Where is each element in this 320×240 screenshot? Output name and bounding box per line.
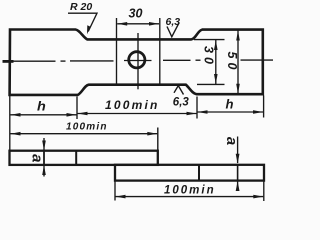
dimension 50 right vertical [225, 31, 240, 94]
svg-text:h: h [37, 99, 46, 114]
vertical center line of hole [137, 33, 139, 89]
weld zone line left [116, 18, 118, 85]
dimension a left [28, 138, 45, 177]
svg-text:a: a [28, 154, 45, 162]
side view 1 a-dim line crossing [43, 151, 45, 165]
horizontal center line [3, 60, 274, 61]
svg-text:R 20: R 20 [70, 1, 92, 13]
side view 2 a-dim line crossing [237, 165, 239, 181]
side view 2 extensions [114, 182, 116, 201]
specimen outline top view [10, 30, 263, 95]
radius leader R20 [68, 1, 97, 34]
dimension 100min bottom [116, 185, 264, 199]
left edge extension down [9, 96, 11, 150]
dimension 100min row2 [11, 121, 158, 135]
extension lines right 30 [194, 39, 225, 41]
svg-text:30: 30 [129, 7, 143, 21]
extension line x197 [196, 97, 198, 119]
dimension 30 right vertical [202, 40, 218, 84]
svg-text:50: 50 [225, 52, 239, 74]
extension row2 right [157, 128, 159, 151]
side view 1 division [75, 151, 77, 165]
svg-text:100min: 100min [164, 185, 216, 197]
dimension 30 top [117, 7, 159, 26]
hole circle [129, 52, 145, 68]
svg-text:100min: 100min [105, 98, 160, 112]
roughness 6,3 top [166, 16, 181, 37]
side view 2 rectangle [115, 165, 264, 181]
side view 1 rectangle [10, 151, 158, 165]
extension line x77 [76, 97, 78, 120]
svg-text:30: 30 [202, 46, 216, 68]
dimension h right [198, 97, 264, 114]
svg-text:6,3: 6,3 [173, 96, 190, 108]
side view 2 division [198, 165, 200, 181]
right edge extension down [263, 96, 265, 118]
svg-text:h: h [226, 97, 234, 112]
dimension h left [11, 99, 77, 117]
dimension 100min middle [78, 98, 197, 115]
svg-text:100min: 100min [66, 121, 108, 132]
weld zone line right [159, 18, 161, 85]
dimension a right [223, 137, 240, 192]
roughness 6,3 bottom [173, 86, 190, 109]
svg-text:a: a [223, 137, 240, 145]
